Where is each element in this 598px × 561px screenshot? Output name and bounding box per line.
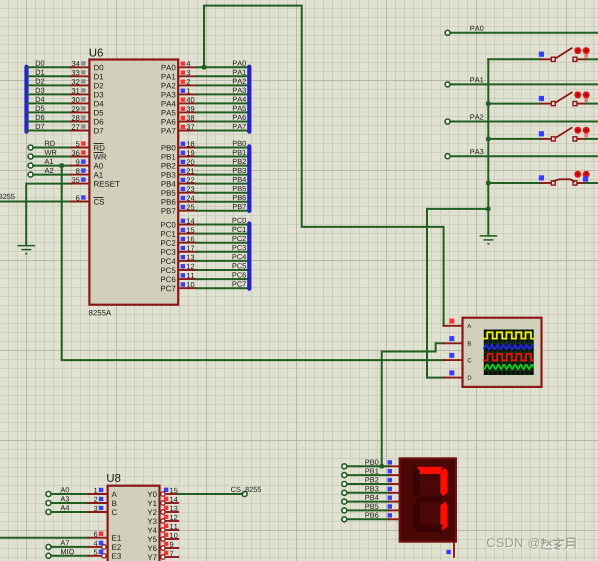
terminal CS_8255 bbox=[242, 492, 247, 497]
scope trace channel B (blue) bbox=[484, 345, 533, 349]
wire WR terminal to U6 bbox=[33, 156, 71, 158]
net label D6 bbox=[36, 115, 45, 120]
net label D7 bbox=[36, 124, 44, 129]
display pin 4 stub bbox=[389, 501, 399, 503]
net label PA5 bbox=[233, 106, 246, 111]
toggle marker 2 SW4 bbox=[583, 171, 590, 178]
wire PB0 to bus bbox=[196, 147, 249, 149]
net label D2 bbox=[36, 79, 44, 84]
junction on PA0 wire bbox=[202, 65, 206, 69]
net label A2 bbox=[45, 168, 54, 173]
net label PA0 bbox=[470, 26, 483, 31]
net label PB4 bbox=[233, 177, 246, 182]
segment C (lit) bbox=[440, 502, 447, 530]
U6 pin 25 (PB7) right bbox=[179, 210, 196, 212]
wire PB1 to display bbox=[347, 474, 389, 476]
segment A (lit) bbox=[415, 467, 442, 474]
wire PA2 to edge bbox=[450, 121, 598, 123]
refdes U8 bbox=[107, 474, 120, 482]
oscilloscope body bbox=[463, 318, 542, 387]
net label PB3 bbox=[365, 486, 378, 491]
display pin 5 stub bbox=[389, 509, 399, 511]
wire PA2 to bus bbox=[196, 84, 249, 86]
wire PC5 to bus bbox=[196, 269, 249, 271]
wire PA3 to edge bbox=[450, 155, 598, 157]
value 8255A bbox=[89, 310, 111, 316]
toggle marker 1 SW4 bbox=[574, 171, 581, 178]
wire trunk to switch SW4 bbox=[488, 182, 541, 184]
ground (switch trunk) bbox=[480, 236, 498, 244]
bus PA0-PA7 bbox=[247, 65, 251, 134]
net label PC1 bbox=[233, 227, 246, 232]
U8 pin 12 (Y3) bbox=[161, 519, 165, 523]
wire A1 terminal to U6 bbox=[33, 165, 71, 167]
net label D3 bbox=[36, 88, 45, 93]
wire D3 bus to U6 bbox=[28, 93, 71, 95]
wire Y0 to CS_8255 bbox=[178, 493, 242, 495]
net label A4 bbox=[60, 505, 69, 510]
net label A3 bbox=[60, 496, 69, 501]
junction trunk row 2 bbox=[486, 101, 490, 105]
switch SW1 bbox=[541, 48, 586, 62]
net label PC3 bbox=[233, 245, 246, 250]
U6 pin 34 (D0) left bbox=[71, 66, 89, 68]
U6 pin 27 (D7) left bbox=[71, 130, 89, 132]
net label PB5 bbox=[365, 504, 378, 509]
terminal PB1 bbox=[342, 473, 347, 478]
U6 pin 21 (PB3) right bbox=[179, 174, 196, 176]
U8 pin 2 (B) bbox=[89, 502, 107, 504]
net label PB0 bbox=[365, 460, 378, 465]
watermark CSDN bbox=[488, 539, 540, 550]
U6 pin 38 (PA6) right bbox=[179, 121, 196, 123]
terminal A0 bbox=[46, 492, 51, 497]
net label PA7 bbox=[233, 124, 246, 129]
U6 pin 11 (PC6) right bbox=[179, 278, 196, 280]
wire PA3 to bus bbox=[196, 93, 249, 95]
state square SW4 bbox=[539, 175, 544, 180]
terminal A2 bbox=[28, 172, 33, 177]
scope screen bbox=[484, 330, 534, 376]
wire PB1 to bus bbox=[196, 156, 249, 158]
net label PA2 bbox=[470, 114, 483, 119]
7-segment display body bbox=[400, 458, 456, 541]
terminal PA2 bbox=[445, 119, 450, 124]
wire PB6 to bus bbox=[196, 201, 249, 203]
wire PA1 to edge bbox=[450, 83, 598, 85]
wire PA6 to bus bbox=[196, 121, 249, 123]
U6 pin 19 (PB1) right bbox=[179, 156, 196, 158]
wire PC1 to bus bbox=[196, 233, 249, 235]
U6 pin 30 (D4) left bbox=[71, 102, 89, 104]
U6 pin 33 (D1) left bbox=[71, 75, 89, 77]
wire MIO to U8 bbox=[51, 555, 88, 557]
wire PC3 to bus bbox=[196, 251, 249, 253]
wire RESET to ground bbox=[26, 184, 71, 246]
display pin 6 stub bbox=[389, 518, 399, 520]
net label PB0 bbox=[233, 141, 246, 146]
wire PC2 to bus bbox=[196, 242, 249, 244]
U6 pin 13 (PC4) right bbox=[179, 260, 196, 262]
net label PA2 bbox=[233, 79, 246, 84]
U6 pin 6 (CS) left bbox=[71, 201, 89, 203]
terminal PA0 bbox=[445, 30, 450, 35]
refdes U6 bbox=[90, 49, 103, 57]
wire D6 bus to U6 bbox=[28, 121, 71, 123]
wire PB0 to scope B bbox=[382, 343, 444, 466]
U8 pin 14 (Y1) bbox=[161, 501, 165, 505]
wire PC0 to bus bbox=[196, 224, 249, 226]
wire D0 bus to U6 bbox=[28, 66, 71, 68]
toggle marker 1 SW3 bbox=[574, 127, 581, 134]
U6 pin 36 (WR) left bbox=[71, 156, 89, 158]
wire PB4 to bus bbox=[196, 183, 249, 185]
terminal PA1 bbox=[445, 82, 450, 87]
bus PB0-PB7 bbox=[247, 144, 251, 213]
terminal PB5 bbox=[342, 508, 347, 513]
U8 pin 15 (Y0) bbox=[161, 492, 165, 496]
U6 pin 8 (A1) left bbox=[71, 174, 89, 176]
wire A1 branch to scope C bbox=[62, 166, 444, 361]
wire D7 bus to U6 bbox=[28, 130, 71, 132]
terminal PB0 bbox=[342, 464, 347, 469]
toggle marker 2 SW3 bbox=[583, 127, 590, 134]
U6 pin 23 (PB5) right bbox=[179, 192, 196, 194]
net label PA1 bbox=[233, 70, 246, 75]
segment G (unlit) bbox=[415, 495, 442, 502]
terminal PB3 bbox=[342, 490, 347, 495]
net label PB6 bbox=[233, 195, 246, 200]
U6 pin 31 (D3) left bbox=[71, 93, 89, 95]
actuator stem SW3 bbox=[584, 134, 588, 138]
net label A1 bbox=[45, 159, 54, 164]
terminal MIO bbox=[46, 553, 51, 558]
terminal RD bbox=[28, 145, 33, 150]
ground (U6 reset) bbox=[18, 246, 36, 254]
U8 pin 13 (Y2) bbox=[161, 510, 165, 514]
junction trunk row 3 bbox=[486, 137, 490, 141]
display pin 3 stub bbox=[389, 492, 399, 494]
wire A3 to U8 bbox=[51, 502, 88, 504]
net label D5 bbox=[36, 106, 45, 111]
U6 pin 4 (PA0) right bbox=[179, 66, 196, 68]
junction trunk/scope-D bbox=[486, 207, 490, 211]
net label PA4 bbox=[233, 97, 246, 102]
U6 pin 32 (D2) left bbox=[71, 84, 89, 86]
U6 pin 12 (PC5) right bbox=[179, 269, 196, 271]
wire PA7 to bus bbox=[196, 130, 249, 132]
wire PB4 to display bbox=[347, 501, 389, 503]
U6 pin 15 (PC1) right bbox=[179, 233, 196, 235]
net label PB2 bbox=[233, 159, 246, 164]
terminal A3 bbox=[46, 501, 51, 506]
U6 pin 20 (PB2) right bbox=[179, 165, 196, 167]
U6 pin 17 (PC3) right bbox=[179, 251, 196, 253]
wire trunk to switch SW1 bbox=[488, 58, 541, 60]
junction trunk row 4 bbox=[486, 181, 490, 185]
toggle marker 1 SW2 bbox=[574, 91, 581, 98]
wire scope D to trunk bbox=[427, 208, 488, 210]
net label A7 bbox=[60, 540, 69, 545]
U6 pin 10 (PC7) right bbox=[179, 287, 196, 289]
net label PC4 bbox=[233, 254, 247, 259]
wire SW4 to edge bbox=[586, 182, 598, 184]
toggle marker 2 SW2 bbox=[583, 91, 590, 98]
scope trace channel C (red) bbox=[484, 354, 533, 360]
net label PC0 bbox=[233, 218, 246, 223]
U6 pin 37 (PA7) right bbox=[179, 130, 196, 132]
wire PA4 to bus bbox=[196, 102, 249, 104]
wire SW2 to edge bbox=[586, 103, 598, 105]
wire trunk to switch SW3 bbox=[488, 138, 541, 140]
terminal A4 bbox=[46, 510, 51, 515]
U6 pin 28 (D6) left bbox=[71, 121, 89, 123]
net label 8255 (clipped) bbox=[0, 194, 15, 199]
wire D1 bus to U6 bbox=[28, 75, 71, 77]
U8 pin 1 (A) bbox=[89, 493, 107, 495]
wire trunk to switch SW2 bbox=[488, 103, 541, 105]
display pin 1 stub bbox=[389, 474, 399, 476]
U6 pin 22 (PB4) right bbox=[179, 183, 196, 185]
net label A0 bbox=[60, 487, 69, 492]
net label PA3 bbox=[233, 88, 246, 93]
switch SW4 bbox=[541, 179, 586, 185]
scope pin B bbox=[444, 342, 462, 344]
U8 pin 6 (E1) bbox=[89, 537, 107, 539]
net label PB4 bbox=[365, 495, 378, 500]
U6 pin 35 (RESET) left bbox=[71, 183, 89, 185]
bus D0-D7 bbox=[24, 65, 28, 134]
display common pin bbox=[453, 542, 455, 558]
net label PA6 bbox=[233, 115, 246, 120]
toggle marker 1 SW1 bbox=[574, 47, 581, 54]
wire PA0 to edge bbox=[450, 32, 598, 34]
U8 pin 3 (C) bbox=[89, 511, 107, 513]
wire PA0 to bus bbox=[196, 66, 249, 68]
display pin 0 stub bbox=[389, 465, 399, 467]
wire D5 bus to U6 bbox=[28, 111, 71, 113]
wire SW3 to edge bbox=[586, 138, 598, 140]
segment F (unlit) bbox=[413, 468, 420, 496]
wire PB3 to display bbox=[347, 492, 389, 494]
net label PC2 bbox=[233, 236, 246, 241]
wire scope D vertical bbox=[427, 209, 444, 378]
net label WR bbox=[45, 150, 57, 155]
net label D0 bbox=[36, 61, 45, 66]
scope trace channel A (yellow) bbox=[484, 332, 533, 338]
wire A2 terminal to U6 bbox=[33, 174, 71, 176]
net label PB1 bbox=[365, 468, 378, 473]
junction on A1 wire bbox=[60, 163, 64, 167]
U6 pin 16 (PC2) right bbox=[179, 242, 196, 244]
wire PC4 to bus bbox=[196, 260, 249, 262]
terminal PA3 bbox=[445, 154, 450, 159]
wire switch common trunk bbox=[487, 59, 489, 236]
net label PB1 bbox=[233, 150, 246, 155]
wire PA1 to bus bbox=[196, 75, 249, 77]
toggle marker 2 SW1 bbox=[583, 47, 590, 54]
U6 pin 29 (D5) left bbox=[71, 111, 89, 113]
U8 pin 5 (E3) bbox=[89, 555, 102, 557]
U6 pin 9 (A0) left bbox=[71, 165, 89, 167]
wire D2 bus to U6 bbox=[28, 84, 71, 86]
net label PA0 bbox=[233, 61, 246, 66]
terminal A7 bbox=[46, 544, 51, 549]
scope pin A bbox=[444, 325, 462, 327]
IC U6 8255A body bbox=[89, 60, 178, 305]
U6 pin 3 (PA1) right bbox=[179, 75, 196, 77]
bus PC0-PC7 bbox=[247, 221, 251, 290]
scope pin C bbox=[444, 359, 462, 361]
switch SW2 bbox=[541, 92, 586, 106]
U8 pin 10 (Y5) bbox=[161, 537, 165, 541]
wire CS net 8255 bbox=[0, 201, 71, 203]
wire PB2 to display bbox=[347, 483, 389, 485]
U6 pin 5 (RD) left bbox=[71, 147, 89, 149]
state square SW3 bbox=[539, 131, 544, 136]
net label PB5 bbox=[233, 186, 246, 191]
net label PA1 bbox=[470, 77, 483, 82]
net label PC7 bbox=[233, 281, 246, 286]
wire D4 bus to U6 bbox=[28, 102, 71, 104]
net label PB2 bbox=[365, 477, 378, 482]
state square SW1 bbox=[539, 52, 544, 57]
actuator stem SW1 bbox=[584, 54, 588, 58]
terminal WR bbox=[28, 154, 33, 159]
wire PB0 to display bbox=[347, 465, 389, 467]
wire PC6 to bus bbox=[196, 278, 249, 280]
wire PB5 to display bbox=[347, 509, 389, 511]
U8 pin 7 (Y7) bbox=[161, 555, 165, 559]
U6 pin 40 (PA4) right bbox=[179, 102, 196, 104]
IC U8 body bbox=[108, 486, 160, 561]
net label PC6 bbox=[233, 272, 246, 277]
wire PA0 to scope A bbox=[204, 6, 444, 326]
segment D (unlit) bbox=[415, 525, 442, 532]
net label PB7 bbox=[233, 204, 246, 209]
U6 pin 39 (PA5) right bbox=[179, 111, 196, 113]
net label PB3 bbox=[233, 168, 246, 173]
wire E1 from edge bbox=[0, 537, 89, 539]
net label D1 bbox=[36, 70, 44, 75]
U6 pin 2 (PA2) right bbox=[179, 84, 196, 86]
wire PC7 to bus bbox=[196, 287, 249, 289]
terminal A1 bbox=[28, 163, 33, 168]
wire PB5 to bus bbox=[196, 192, 249, 194]
wire RD terminal to U6 bbox=[33, 147, 71, 149]
wire A0 to U8 bbox=[51, 493, 88, 495]
terminal PB6 bbox=[342, 517, 347, 522]
wire A4 to U8 bbox=[51, 511, 88, 513]
net label PA3 bbox=[470, 149, 483, 154]
display pin 2 stub bbox=[389, 483, 399, 485]
scope pin D bbox=[444, 377, 462, 379]
net label D4 bbox=[36, 97, 45, 102]
net label CS_8255 bbox=[231, 487, 261, 494]
segment E (unlit) bbox=[413, 502, 420, 530]
state square (closed) SW4 bbox=[583, 176, 588, 181]
terminal PB4 bbox=[342, 499, 347, 504]
wire PB6 to display bbox=[347, 518, 389, 520]
wire SW1 to edge bbox=[586, 58, 598, 60]
net label PC5 bbox=[233, 263, 246, 268]
actuator stem SW2 bbox=[584, 98, 588, 102]
net label PB6 bbox=[365, 513, 378, 518]
segment B (lit) bbox=[440, 468, 447, 496]
wire A7 to U8 bbox=[51, 546, 88, 548]
scope trace channel D (green) bbox=[484, 365, 533, 369]
junction PB0/scope-B bbox=[380, 464, 384, 468]
state square SW2 bbox=[539, 96, 544, 101]
net label RD bbox=[45, 141, 55, 146]
terminal PB2 bbox=[342, 482, 347, 487]
U8 pin 4 (E2) bbox=[89, 546, 102, 548]
wire PA5 to bus bbox=[196, 111, 249, 113]
U6 pin 14 (PC0) right bbox=[179, 224, 196, 226]
U6 pin 18 (PB0) right bbox=[179, 147, 196, 149]
net label MIO bbox=[61, 549, 74, 554]
wire PB7 to bus bbox=[196, 210, 249, 212]
U6 pin 24 (PB6) right bbox=[179, 201, 196, 203]
U8 pin 9 (Y6) bbox=[161, 546, 165, 550]
U6 pin 1 (PA3) right bbox=[179, 93, 196, 95]
wire PB3 to bus bbox=[196, 174, 249, 176]
U8 pin 11 (Y4) bbox=[161, 528, 165, 532]
switch SW3 bbox=[541, 127, 586, 141]
wire PB2 to bus bbox=[196, 165, 249, 167]
